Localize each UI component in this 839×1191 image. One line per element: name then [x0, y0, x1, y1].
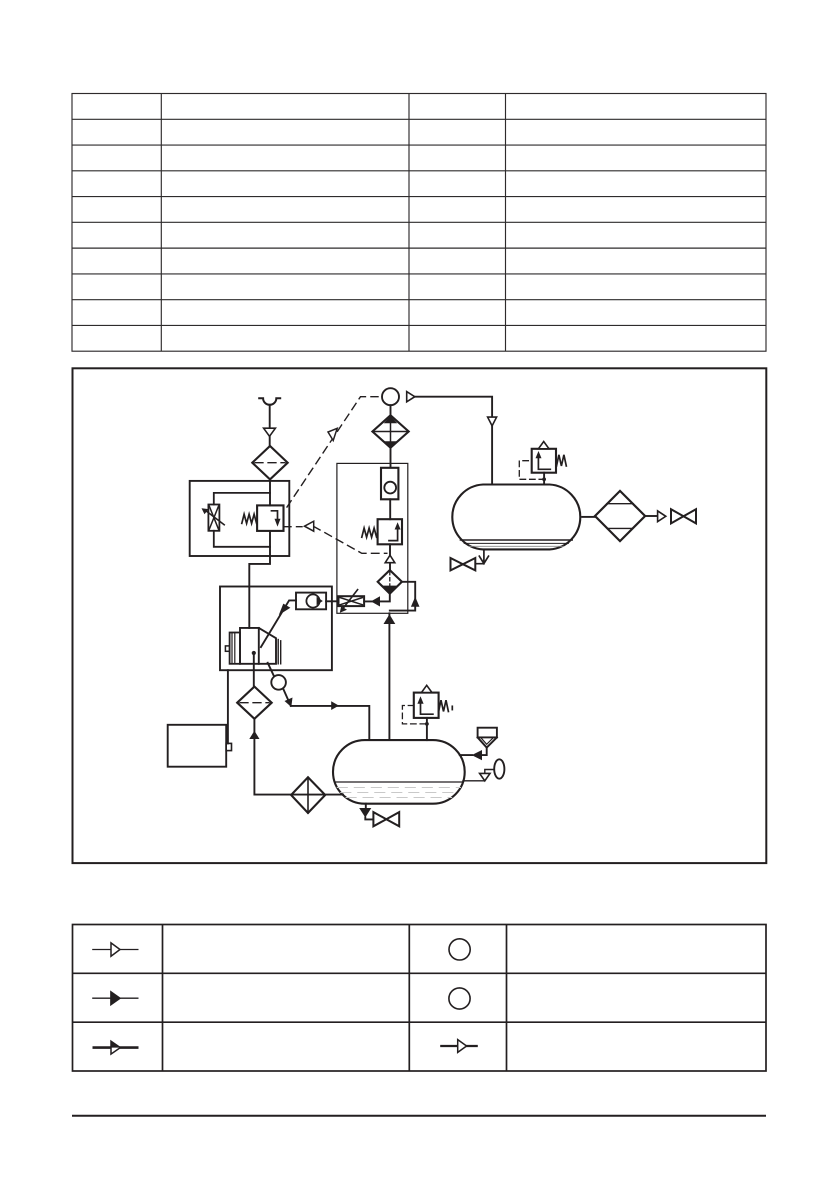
- receiver level lines: [460, 539, 572, 541]
- control box (center, thin): [337, 463, 408, 613]
- service valve (bowtie): [671, 509, 684, 523]
- arrow filled on scavenge diagonal: [285, 698, 293, 708]
- solenoid valve (rect with ball): [381, 468, 398, 500]
- arrow hollow tip-left on pilot: [305, 521, 314, 531]
- wire airend discharge down: [253, 653, 255, 687]
- throttle valve (rect bowtie, adjustable): [339, 596, 365, 606]
- legend row2: flow arrow (filled): [92, 997, 138, 999]
- check arrow hollow tip-up: [385, 555, 395, 563]
- pilot dashed line unloader to top circle: [287, 397, 378, 507]
- arrow filled tip-left filler to tank: [472, 750, 482, 760]
- legend row3: half filled arrow on thick line: [93, 1046, 139, 1049]
- wire thermo valve to throttle: [364, 594, 390, 602]
- legend icons: [92, 939, 478, 1054]
- wire receiver to final filter: [582, 516, 595, 518]
- schematic frame: [73, 368, 767, 863]
- combination valve (diamond with filled cones): [372, 415, 408, 447]
- wire sump valve to tank: [426, 718, 428, 740]
- oil level sight glass: [463, 770, 494, 781]
- oil filler funnel: [478, 728, 497, 738]
- check arrow hollow tip-down on receiver drop: [488, 417, 497, 426]
- oil hatch dashes: [337, 788, 460, 798]
- main oil return riser: [388, 613, 390, 740]
- unloader valve V1 (square, bent down arrow): [257, 505, 283, 531]
- intake filter F1 (diamond, dashed mid): [252, 446, 287, 479]
- oil stop valve (rect, ball on seat): [296, 593, 326, 610]
- wire safety valve to receiver: [543, 473, 545, 485]
- thermostatic valve (small diamond, filled bottom): [378, 570, 402, 594]
- wire oil filter down to cooler run: [254, 719, 343, 795]
- scavenge sight glass circle: [271, 675, 286, 690]
- fan/cooler rect: [168, 725, 227, 767]
- needle valve (adjustable orifice): [208, 505, 219, 531]
- pilot dashed from unloader valve to center line: [284, 526, 387, 553]
- oil filter (diamond dashed mid): [237, 687, 272, 719]
- wire solenoid to regulator: [389, 499, 391, 519]
- wire sight glass to sump: [283, 689, 369, 740]
- airend body: [240, 628, 276, 664]
- wire intake down: [269, 405, 271, 446]
- arrow filled tip-left to throttle: [371, 596, 380, 606]
- wire regulator down: [389, 544, 391, 570]
- motor terminal tab: [225, 646, 229, 651]
- sump tank (air/oil receiver): [333, 740, 465, 804]
- air receiver tank: [452, 485, 580, 550]
- oil injection diagonal: [261, 600, 296, 647]
- receiver drain: [475, 549, 488, 563]
- wire throttle to oil stop valve: [326, 600, 338, 602]
- pilot dashed box of safety valve: [519, 461, 542, 480]
- arrow hollow tip-right after circle: [407, 392, 415, 402]
- wire separator to control box: [390, 448, 392, 468]
- safety valve on receiver: [532, 449, 556, 473]
- oil cooler (diamond with cross): [291, 777, 325, 813]
- wire filter to service valve: [645, 515, 658, 517]
- oil level line: [335, 781, 463, 783]
- arrow on pilot dashed (hollow): [328, 428, 337, 440]
- legend row1 col3: circle: [449, 939, 470, 960]
- compressor package box: [220, 587, 332, 671]
- legend row2 col3: circle: [449, 988, 470, 1009]
- wire filter to unloader valve: [269, 479, 271, 505]
- motor block: [230, 633, 240, 664]
- check arrow on intake (hollow, tip down): [264, 428, 276, 436]
- legend row1: pilot line arrow (hollow): [92, 949, 138, 951]
- wire into sight glass: [268, 663, 274, 676]
- minimum pressure valve on sump: [414, 693, 439, 718]
- bypass loop wire in unloader box: [214, 493, 270, 547]
- wire compressor box to cooler tab: [227, 670, 229, 743]
- spring of regulator: [362, 528, 377, 537]
- junction circle (pressure transducer): [382, 388, 399, 405]
- sump drain valve (bowtie): [373, 812, 386, 826]
- arrow filled tip-right on scavenge run: [331, 701, 339, 710]
- arrow filled up below oil filter: [249, 731, 259, 739]
- discharge strip: [277, 640, 279, 664]
- unloader box (left): [190, 481, 290, 556]
- arrow filled up on bypass: [411, 597, 420, 607]
- arrow filled up on riser: [384, 614, 396, 624]
- tab on cooler rect: [226, 743, 231, 750]
- junction dot in airend: [252, 651, 256, 655]
- legend table (3x4): [73, 925, 767, 1072]
- wire circle to separator: [390, 405, 392, 415]
- bypass wire around thermo valve: [390, 582, 415, 611]
- spring of unloader valve: [242, 514, 257, 523]
- pilot dashed box of sump valve: [402, 706, 427, 724]
- final filter (diamond with chords): [595, 491, 645, 541]
- wire unloader valve down to compressor: [249, 531, 270, 628]
- legend row3 col3: line with hollow arrow: [440, 1045, 478, 1047]
- air intake funnel: [259, 398, 280, 405]
- arrow filled down-left on oil injection: [279, 604, 291, 615]
- arrow hollow tip-right: [658, 511, 666, 522]
- footer rule: [72, 1115, 766, 1117]
- receiver drain valve (bowtie): [451, 558, 463, 570]
- wire top to receiver: [415, 397, 492, 485]
- top parts table (empty 10x4): [72, 94, 766, 352]
- pressure regulator R (square, bent up arrow): [378, 519, 402, 544]
- sump drain: [365, 804, 373, 820]
